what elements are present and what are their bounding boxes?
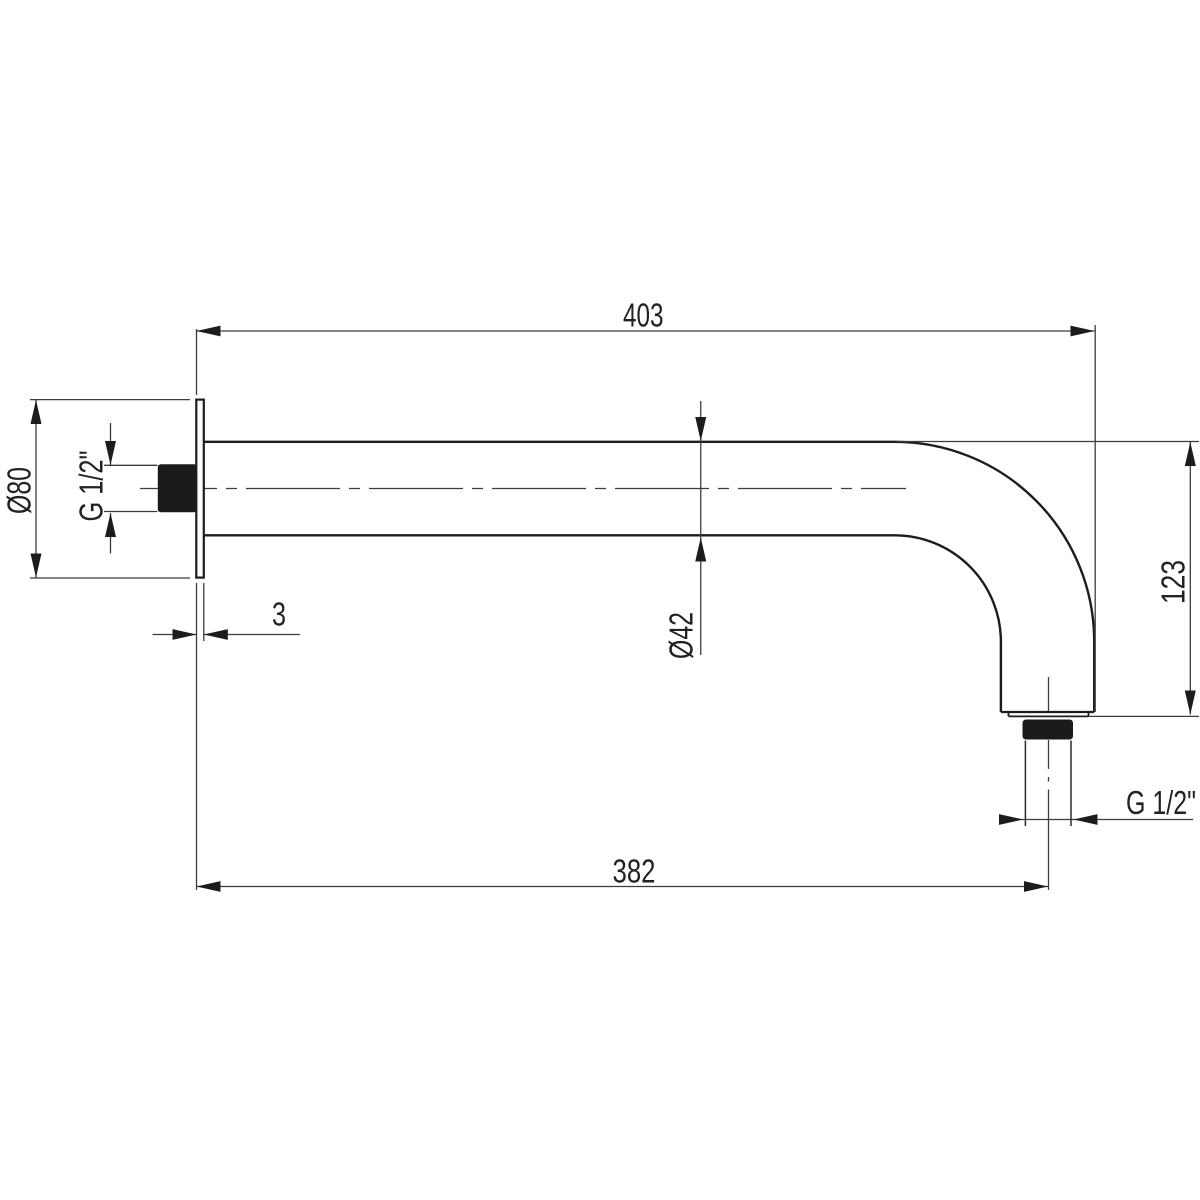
dimension G 1/2 wall: extension line top: [104, 464, 158, 466]
svg-text:3: 3: [272, 596, 286, 633]
dimension 3: extension line right: [203, 583, 205, 641]
svg-text:403: 403: [623, 297, 664, 334]
wall-side threaded connector (black): [158, 464, 197, 512]
dimension G 1/2 outlet: arrow pointing left: [1074, 814, 1098, 825]
dimension O42: arrow up: [695, 538, 706, 562]
dimension G 1/2 wall: dimension line upper: [110, 423, 112, 465]
dimension 382: arrow left: [197, 881, 221, 892]
dimension O80: arrow up: [31, 400, 42, 424]
dimension G 1/2 outlet: dimension line: [999, 819, 1193, 821]
svg-text:G 1/2": G 1/2": [73, 451, 110, 522]
dimension O80: extension line bottom: [30, 577, 190, 579]
dimension O80: arrow down: [31, 554, 42, 578]
outlet bottom face: [1001, 711, 1094, 713]
dimension G 1/2 outlet: arrow pointing right: [999, 814, 1023, 825]
dimension 382: dimension line: [197, 886, 1049, 888]
dimension 123: extension line bottom: [1089, 715, 1200, 717]
outlet thread outline right: [1070, 741, 1072, 827]
dimension 403: arrow right: [1071, 326, 1095, 337]
dimension 123: arrow up: [1185, 442, 1196, 466]
dimension 123: arrow down: [1185, 691, 1196, 715]
dimension 123: extension line top: [897, 441, 1199, 443]
svg-text:123: 123: [1155, 560, 1192, 604]
dimension O42: dimension line: [700, 401, 702, 655]
outlet thread outline left: [1024, 741, 1026, 827]
dimension O42: arrow down: [695, 417, 706, 441]
dimension 3: dimension line right part: [204, 634, 300, 636]
centerline horizontal (tube axis): [140, 488, 906, 490]
dimension 382: arrow right: [1024, 881, 1048, 892]
dimension 3: arrow pointing right: [173, 629, 197, 640]
svg-text:Ø42: Ø42: [663, 612, 700, 659]
dimension 403: dimension line: [197, 330, 1095, 332]
dimension G 1/2 wall: arrow down: [105, 441, 116, 465]
shower arm inner contour (bottom edge, bend, left edge): [205, 535, 1001, 712]
wall plate: [196, 400, 204, 578]
dimension 403: extension line right: [1094, 325, 1096, 712]
dimension G 1/2 wall: arrow up: [105, 513, 116, 537]
outlet threaded ring (black): [1023, 720, 1074, 740]
dimension 3: extension line left (long shared): [196, 583, 198, 890]
svg-text:Ø80: Ø80: [1, 467, 38, 514]
dimension G 1/2 wall: extension line bottom: [104, 511, 158, 513]
dimension 123: dimension line: [1189, 442, 1191, 715]
dimension 3: dimension line left part: [153, 634, 197, 636]
dimension G 1/2 wall: dimension line lower: [110, 513, 112, 554]
centerline vertical (outlet axis): [1048, 677, 1050, 890]
dimension 403: arrow left: [197, 326, 221, 337]
dimension O80: extension line top: [30, 399, 190, 401]
dimension 403: extension line left: [196, 329, 198, 395]
shower arm outer contour (top edge, bend, right edge): [205, 442, 1095, 712]
svg-text:382: 382: [613, 853, 656, 890]
svg-text:G 1/2": G 1/2": [1126, 784, 1196, 821]
outlet collar step: [1009, 712, 1089, 716]
dimension 3: arrow pointing left: [204, 629, 228, 640]
dimension O80: dimension line: [35, 400, 37, 578]
